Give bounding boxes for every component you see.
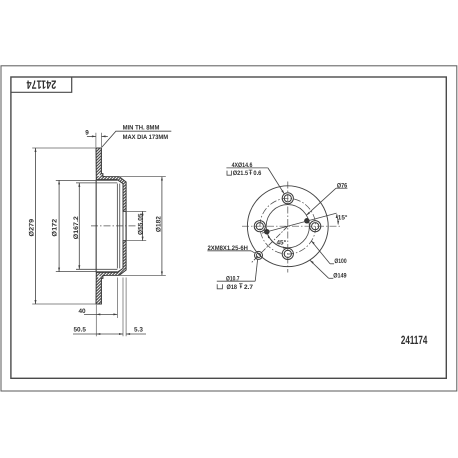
sheet border <box>1 66 457 391</box>
drawing frame <box>11 77 446 378</box>
svg-text:Ø55.05: Ø55.05 <box>137 213 144 235</box>
bottom dims <box>95 305 97 337</box>
dim 50.5 <box>73 333 123 335</box>
dim O182 <box>105 176 166 178</box>
title box <box>11 77 72 92</box>
svg-text:Ø172: Ø172 <box>52 218 59 236</box>
centerlines <box>242 225 341 227</box>
dim 5.3 <box>126 333 146 335</box>
friction face line <box>95 180 97 273</box>
45 deg line to hole <box>251 226 288 263</box>
svg-text:Ø279: Ø279 <box>29 219 36 237</box>
svg-text:Ø182: Ø182 <box>156 216 163 232</box>
svg-text:9: 9 <box>85 130 89 137</box>
svg-text:0.6: 0.6 <box>253 170 261 177</box>
svg-text:Ø18: Ø18 <box>227 284 238 291</box>
svg-text:MIN TH. 8MM: MIN TH. 8MM <box>123 124 160 131</box>
svg-text:40: 40 <box>79 308 87 315</box>
circle O76 <box>266 205 309 248</box>
svg-text:15°: 15° <box>338 215 348 222</box>
svg-text:45°: 45° <box>277 239 287 246</box>
O10.7 hole <box>256 253 260 257</box>
15 deg line <box>262 213 337 233</box>
bore lines <box>122 211 124 240</box>
disc section bottom half <box>96 241 126 304</box>
hat inner edges vertical <box>116 184 118 269</box>
svg-text:50.5: 50.5 <box>74 326 87 333</box>
bolt holes <box>254 193 321 260</box>
svg-text:241174: 241174 <box>401 333 428 347</box>
svg-text:MAX DIA 173MM: MAX DIA 173MM <box>123 134 169 141</box>
dim 40 <box>84 313 117 315</box>
dim O55.05 <box>126 210 146 212</box>
disc section top half <box>96 148 126 211</box>
svg-text:2.7: 2.7 <box>244 284 253 291</box>
svg-text:Ø100: Ø100 <box>334 258 347 265</box>
svg-text:Ø167.2: Ø167.2 <box>73 216 80 239</box>
O167.2 lines <box>76 182 117 184</box>
dim O167.2 <box>78 183 80 269</box>
dim O172 <box>58 180 60 271</box>
M8 holes <box>304 218 310 224</box>
dim 9 <box>95 133 97 147</box>
centerline <box>91 225 137 227</box>
svg-text:Ø21.5: Ø21.5 <box>233 170 249 177</box>
junction groove bottom <box>98 276 99 278</box>
bolt circle O100 <box>260 198 316 254</box>
junction groove top <box>98 174 99 176</box>
circle O149 <box>247 186 328 267</box>
svg-text:Ø149: Ø149 <box>333 273 347 280</box>
hat inner edges horizontal + ext (O172) <box>56 179 118 181</box>
svg-text:241174: 241174 <box>26 77 56 91</box>
svg-text:5.3: 5.3 <box>134 326 143 333</box>
dim O279 <box>32 147 96 149</box>
leader MIN TH <box>102 131 171 147</box>
